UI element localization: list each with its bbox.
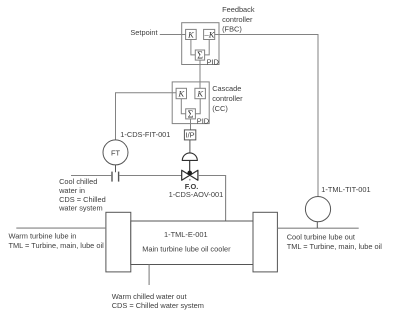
- svg-text:(FBC): (FBC): [222, 24, 242, 33]
- valve 1-CDS-AOV-001 bowtie: [182, 170, 198, 180]
- pipe warm chilled water out stem: [148, 265, 150, 286]
- svg-text:Warm chilled water out: Warm chilled water out: [112, 292, 187, 301]
- gain block -K (FBC): [204, 29, 215, 39]
- junction dot valve stem: [187, 171, 192, 176]
- pipe valve to cooler: [198, 176, 226, 222]
- wire FT tap stem: [115, 165, 117, 172]
- wire FT to CC input: [116, 93, 177, 140]
- wire FBC summer to CC: [199, 60, 201, 88]
- junction dot small gray: [189, 179, 191, 181]
- svg-text:1-TML-E-001: 1-TML-E-001: [164, 230, 208, 239]
- heat exchanger shell 1-TML-E-001: [131, 221, 253, 265]
- svg-text:Σ: Σ: [197, 51, 203, 62]
- svg-text:PID: PID: [207, 58, 219, 67]
- svg-text:I/P: I/P: [186, 130, 195, 139]
- svg-text:Feedback: Feedback: [222, 5, 255, 14]
- svg-text:K: K: [187, 30, 194, 39]
- op FBC outer box U1: [182, 23, 219, 65]
- svg-text:CDS = Chilled: CDS = Chilled: [59, 195, 106, 204]
- wire K left to summer (CC): [181, 99, 185, 114]
- wire CC summer to I/P: [190, 119, 192, 130]
- transmitter FT circle: [103, 140, 128, 165]
- wire K right to summer (CC): [195, 99, 200, 114]
- svg-text:Main turbine lube oil cooler: Main turbine lube oil cooler: [142, 245, 231, 254]
- summer sigma (FBC): [195, 50, 204, 62]
- svg-text:Σ: Σ: [188, 109, 194, 120]
- pipe warm turbine lube in: [16, 227, 106, 229]
- svg-text:Warm turbine lube in: Warm turbine lube in: [9, 231, 77, 240]
- svg-text:TML = Turbine, main, lube oil: TML = Turbine, main, lube oil: [9, 241, 105, 250]
- svg-text:Cool chilled: Cool chilled: [59, 177, 97, 186]
- transmitter TIT circle: [305, 197, 330, 222]
- gain block K (FBC): [186, 29, 197, 39]
- svg-text:TML = Turbine, main, lube oil: TML = Turbine, main, lube oil: [287, 242, 383, 251]
- transducer I/P: [184, 130, 195, 140]
- svg-text:PID: PID: [197, 117, 209, 126]
- svg-text:Cool turbine lube out: Cool turbine lube out: [287, 232, 355, 241]
- orifice plate right bar: [118, 172, 120, 182]
- wire TIT to pipe stem: [316, 222, 318, 229]
- wire actuator to valve stem: [189, 160, 191, 175]
- svg-text:1-CDS-AOV-001: 1-CDS-AOV-001: [169, 190, 224, 199]
- orifice plate left bar: [111, 172, 113, 182]
- svg-text:FT: FT: [111, 148, 121, 157]
- svg-text:CDS = Chilled water system: CDS = Chilled water system: [112, 301, 204, 310]
- svg-text:Cascade: Cascade: [212, 84, 241, 93]
- svg-text:Setpoint: Setpoint: [130, 28, 157, 37]
- svg-text:1-CDS-FIT-001: 1-CDS-FIT-001: [120, 130, 170, 139]
- svg-text:controller: controller: [212, 94, 243, 103]
- gain block K right (CC): [195, 88, 206, 98]
- svg-text:water system: water system: [58, 204, 103, 213]
- svg-text:water in: water in: [58, 186, 85, 195]
- wire I/P to actuator: [189, 140, 191, 153]
- summer sigma (CC): [186, 109, 196, 121]
- wire setpoint input: [160, 34, 186, 36]
- svg-text:controller: controller: [222, 15, 253, 24]
- svg-text:K: K: [178, 89, 185, 98]
- heat exchanger left header: [106, 212, 131, 272]
- svg-text:–K: –K: [204, 30, 215, 39]
- wire K to summer (FBC): [191, 40, 195, 55]
- svg-text:(CC): (CC): [212, 104, 228, 113]
- pipe cool chilled water in: [71, 175, 182, 177]
- op CC outer box U2: [172, 82, 209, 124]
- wire FBC output to TIT: [215, 35, 318, 197]
- heat exchanger right header: [253, 212, 277, 272]
- svg-text:1-TML-TIT-001: 1-TML-TIT-001: [321, 185, 370, 194]
- svg-text:K: K: [196, 89, 203, 98]
- wire -K to summer (FBC): [205, 40, 210, 55]
- gain block K left (CC): [176, 88, 186, 98]
- pipe cool turbine lube out: [277, 227, 358, 229]
- actuator diaphragm dome: [182, 153, 197, 160]
